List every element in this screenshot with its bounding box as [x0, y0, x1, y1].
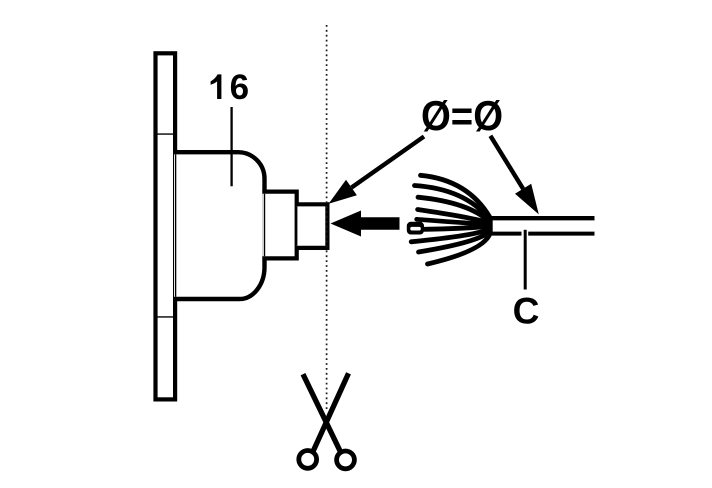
- grommet step 1: [262, 192, 296, 259]
- leader line for C: [524, 230, 527, 290]
- wire strand 9: [428, 234, 491, 265]
- cable sheath end edge: [490, 216, 493, 236]
- cable bottom line right segment: [528, 232, 594, 236]
- arrowhead to nozzle: [329, 180, 357, 204]
- arrow from label to cable: [490, 136, 523, 189]
- svg-text:Ø=Ø: Ø=Ø: [421, 93, 503, 140]
- strand end ferrule slot: [410, 227, 421, 231]
- panel hole lower edge line: [157, 316, 173, 318]
- wire strand 7: [411, 229, 490, 242]
- cable bottom line left segment: [489, 232, 522, 236]
- dotted cut line: [326, 25, 328, 412]
- strand end ferrule body: [407, 222, 424, 235]
- scissors right blade: [312, 373, 348, 453]
- svg-text:C: C: [513, 291, 540, 332]
- grommet edge behind step 1: [264, 194, 266, 256]
- scissors left blade: [303, 374, 341, 452]
- wire strand 2: [415, 186, 491, 221]
- grommet 16 body (dome): [174, 152, 265, 299]
- wire strand 5: [417, 219, 490, 224]
- scissors right handle ring: [337, 451, 355, 469]
- wire strand 1: [421, 175, 491, 217]
- arrow from label to nozzle: [352, 137, 425, 188]
- thick insertion arrow: [331, 211, 400, 237]
- wire strand 3: [418, 197, 490, 222]
- panel hole upper edge line: [157, 133, 173, 135]
- label 16: [211, 74, 222, 99]
- grommet step 2 (nozzle): [296, 204, 327, 248]
- arrowhead to cable: [515, 184, 539, 215]
- step1 edge behind step 2: [296, 206, 298, 245]
- wire strand 6 with ferrule: [425, 226, 491, 229]
- leader line for 16: [230, 107, 232, 186]
- svg-text:6: 6: [230, 68, 249, 107]
- wire strand 8: [419, 231, 491, 252]
- wire strand 4: [418, 210, 490, 224]
- cable top line: [489, 216, 595, 220]
- panel plate: [156, 53, 176, 399]
- plate edge behind grommet: [175, 155, 177, 297]
- scissors left handle ring: [299, 451, 317, 469]
